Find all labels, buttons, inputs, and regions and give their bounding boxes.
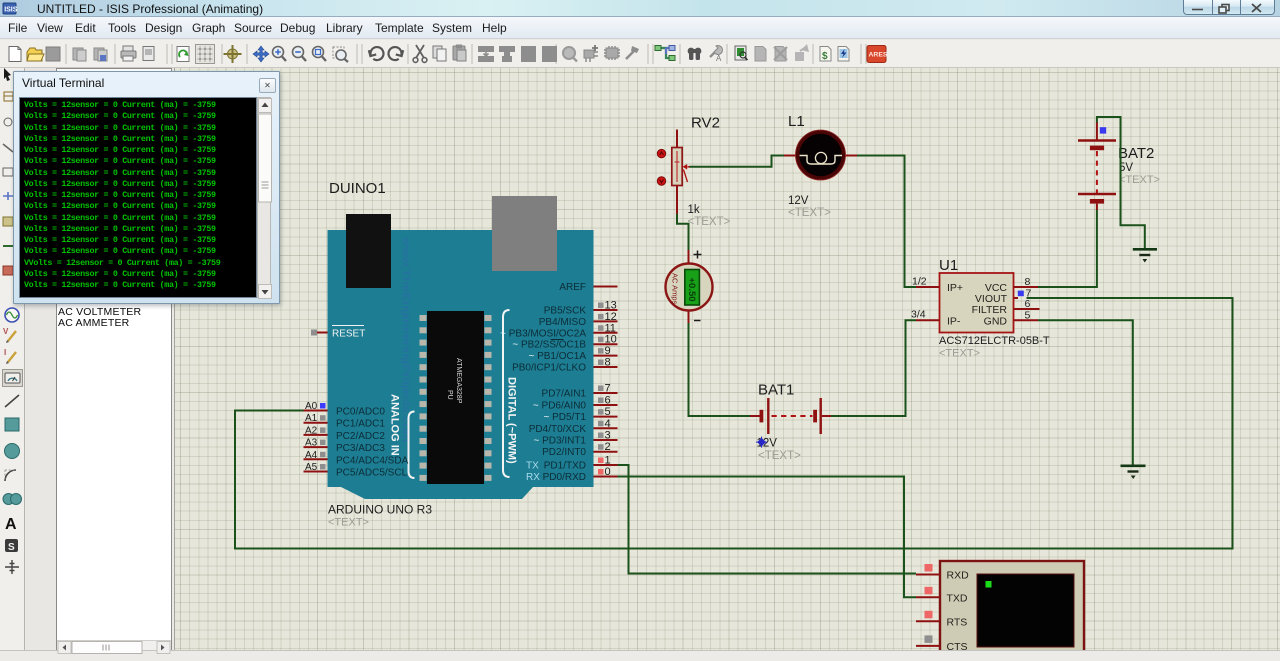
pin A4: [304, 450, 409, 467]
object selector scrollbar parts: [58, 642, 170, 654]
icon block delete: [542, 46, 557, 62]
pin 13 PB5/SCK: [544, 300, 618, 317]
pin A5: [304, 462, 408, 479]
icon export section: [94, 48, 107, 61]
icon virtual instruments (selected): [3, 370, 23, 387]
wire BAT1 to U1 IP-: [831, 320, 916, 416]
wire U1 GND to ground: [1038, 320, 1133, 465]
icon 2D closed path: [3, 494, 22, 505]
U1 pin 6 FILTER: [972, 298, 1040, 316]
icon undo: [369, 46, 385, 62]
icon print: [121, 46, 136, 61]
battery BAT2: [1078, 122, 1116, 210]
icon zoom in: [273, 47, 287, 62]
pin A2: [304, 425, 386, 442]
icon new design: [9, 47, 21, 62]
wire RV2 wiper to L1: [690, 156, 785, 167]
pin 11 PB3/MOSI/OC2A: [500, 322, 617, 339]
battery BAT1: [750, 398, 832, 434]
wire U1 VIOUT to A0 net: [235, 298, 1233, 549]
U1 pin 7 VIOUT: [975, 288, 1032, 306]
U1 pin 8 VCC: [985, 276, 1038, 294]
wire ammeter to BAT1: [689, 323, 751, 416]
wire Arduino RXD to terminal TXD: [618, 477, 917, 598]
ground (U1 GND net): [1121, 466, 1146, 479]
icon voltage probe: [3, 327, 16, 343]
pin AREF: [559, 282, 617, 293]
wire BAT2 positive to ground: [1097, 117, 1145, 249]
icon origin: [224, 45, 242, 63]
lamp L1: [784, 130, 857, 180]
icon pick device (disabled): [563, 47, 577, 62]
icon bill of materials: [820, 47, 831, 63]
icon cut: [413, 45, 427, 62]
icon copy: [433, 46, 446, 61]
icon 2D symbol: [5, 539, 18, 553]
pin 3 PD3/INT1: [533, 430, 617, 447]
icon save design (disabled): [46, 47, 60, 61]
svg-text:S: S: [8, 542, 15, 553]
icon zoom all: [313, 47, 327, 62]
icon 2D circle: [5, 444, 20, 459]
icon 2D line: [5, 395, 19, 407]
icon markers: [5, 560, 19, 574]
U1 pin IP- (3/4): [911, 309, 961, 328]
pin A0: [304, 401, 386, 418]
pin 7 PD7/AIN1: [542, 383, 618, 400]
wire RV2 to ammeter: [677, 214, 689, 251]
pin 2 PD2/INT0: [542, 441, 617, 458]
icon remove sheet (disabled): [774, 47, 787, 62]
svg-text:I: I: [4, 348, 6, 357]
icon import section: [73, 48, 86, 61]
wire U1 VCC to BAT2: [1038, 210, 1097, 288]
microcontroller board DUINO1 Arduino UNO R3: [328, 196, 594, 499]
icon mark print area: [143, 47, 154, 61]
pin 4 PD4/T0/XCK: [529, 418, 618, 435]
ground (BAT2 net): [1133, 249, 1157, 262]
icon paste: [453, 45, 466, 62]
svg-text:V: V: [3, 327, 9, 336]
icon block move: [499, 46, 515, 62]
pin 0 PD0/RXD: [526, 466, 618, 483]
svg-text:ARES: ARES: [869, 52, 888, 59]
toolbar group separators: [66, 44, 866, 64]
terminal pin CTS: [916, 635, 968, 653]
icon electrical rules check: [838, 47, 849, 62]
pin A3: [304, 438, 386, 455]
terminal pin TXD: [916, 587, 968, 605]
icon zoom out: [293, 47, 307, 62]
pin 8 PB0/ICP1/CLKO: [512, 357, 617, 374]
icon packaging tool: [604, 46, 620, 60]
digital group brace: [503, 310, 510, 477]
icon 2D arc: [5, 470, 16, 481]
RV2 actuator up button: [657, 149, 665, 157]
icon new sheet (disabled): [755, 47, 766, 62]
value label 12V with origin marker: [756, 437, 777, 450]
ammeter minus label: [694, 320, 701, 322]
window button glyphs: [1192, 4, 1261, 13]
wire Arduino TXD to terminal RXD: [618, 465, 917, 574]
pin RESET: [311, 326, 365, 340]
wire RV2 top stub: [676, 130, 678, 148]
icon design explorer: [735, 46, 748, 60]
icon redraw: [177, 47, 189, 62]
icon netlist to ARES: [867, 46, 888, 63]
icon current probe: [4, 348, 16, 364]
U1 pin IP+ (1/2): [912, 276, 963, 295]
partially hidden selector icons along left edge: [3, 68, 13, 275]
svg-text:$: $: [822, 51, 828, 62]
svg-text:ISIS: ISIS: [4, 7, 18, 14]
icon goto parent (disabled): [795, 44, 809, 61]
U1 pin 5 GND: [984, 309, 1038, 327]
icon pan: [253, 46, 269, 62]
pin 12 PB4/MISO: [539, 311, 618, 328]
pin A1: [304, 413, 386, 430]
op-amp U1 ACS712 body: [940, 273, 1014, 333]
icon 2D box: [5, 418, 19, 431]
pin 1 PD1/TXD: [526, 455, 618, 472]
svg-text:A: A: [716, 54, 722, 63]
icon decompose: [626, 46, 639, 59]
icon generator mode: [5, 308, 19, 322]
icon zoom area: [333, 47, 348, 62]
pin 5 PD5/T1: [543, 406, 617, 423]
pin 9 PB1/OC1A: [528, 345, 617, 362]
pin 6 PD6/AIN0: [533, 395, 618, 412]
svg-text:A: A: [5, 516, 17, 533]
analog group brace: [409, 412, 415, 479]
RV2 actuator down button: [657, 177, 665, 185]
icon wire autorouter: [655, 46, 675, 61]
terminal pin RTS: [916, 611, 967, 629]
terminal pin RXD: [916, 564, 969, 582]
icon make device: [584, 45, 598, 62]
icon property assignment tool: [710, 46, 723, 63]
chip ATMEGA328P: [420, 311, 492, 484]
icon open design: [27, 48, 44, 61]
icon grid toggle (pressed): [196, 45, 215, 64]
icon block copy: [478, 46, 494, 62]
icon redo: [387, 46, 403, 62]
pin 10 PB2/SS/OC1B: [512, 334, 617, 351]
wire L1 to U1 IP+: [857, 156, 916, 288]
potentiometer RV2: [672, 148, 690, 186]
serial virtual terminal VT1: [940, 561, 1084, 661]
ammeter AC Amps: [666, 250, 713, 324]
wire RV2 bottom stub: [676, 186, 678, 215]
ammeter plus label: [694, 251, 702, 259]
icon block rotate: [521, 46, 536, 62]
icon search tag: [688, 48, 702, 60]
app icon: [3, 3, 18, 14]
